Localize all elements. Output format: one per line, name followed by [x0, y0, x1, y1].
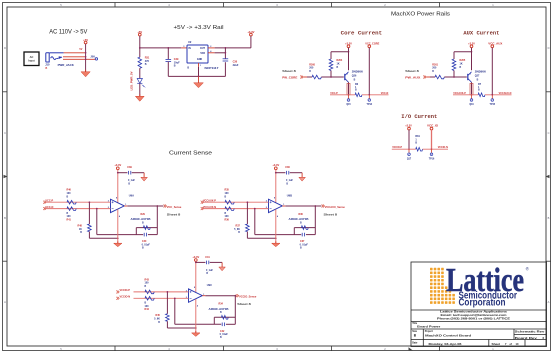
testpoint TP16: [431, 149, 433, 153]
svg-text:A: A: [4, 300, 6, 304]
wire output VCCIO_Sense: [202, 295, 205, 297]
resistor R34: [222, 316, 229, 320]
AC input box: [24, 52, 39, 66]
pin stub IN pin 3: [181, 47, 187, 49]
wire TAB to OUT net: [215, 52, 226, 54]
input net VCCIO-N: [116, 297, 119, 300]
shunt resistor R7: [478, 93, 485, 97]
wire VCC_IO drop: [431, 130, 433, 149]
svg-text:A: A: [548, 300, 550, 304]
input net VCCAUX-N: [201, 207, 204, 210]
wire jack line1 +5V: [64, 52, 86, 54]
svg-text:C41: C41: [205, 256, 210, 259]
svg-text:VCCIO-N: VCCIO-N: [438, 146, 448, 149]
svg-text:VCC_IO: VCC_IO: [427, 124, 438, 127]
svg-text:IN: IN: [188, 47, 191, 50]
svg-text:Schematic Rev: Schematic Rev: [515, 330, 545, 333]
svg-text:1K: 1K: [337, 63, 340, 66]
svg-text:GND: GND: [197, 58, 203, 61]
svg-text:0_01uF: 0_01uF: [300, 243, 309, 246]
wire bypass branch C41: [196, 261, 206, 263]
wire top rail to +3.3V: [331, 51, 349, 53]
svg-text:VCCAUX_Sense: VCCAUX_Sense: [325, 205, 346, 209]
wire feedback from pin2: [174, 298, 176, 324]
svg-text:R29: R29: [141, 213, 146, 216]
svg-text:Monday, 03-Apr-06: Monday, 03-Apr-06: [429, 342, 462, 346]
connector J10 PWR_JACK: [46, 53, 64, 62]
wire +3.3V into U9A: [117, 170, 119, 203]
testpoint TP15: [491, 95, 493, 99]
svg-text:U9C: U9C: [207, 283, 212, 287]
op-amp U9A: [111, 199, 125, 212]
ground at bypass C39: [143, 173, 145, 178]
svg-text:100: 100: [67, 192, 72, 195]
ground at U9C: [195, 331, 197, 333]
svg-text:VCCAUX-N: VCCAUX-N: [499, 92, 512, 95]
capacitor C39: [127, 171, 129, 175]
svg-text:VCC_AUX: VCC_AUX: [488, 42, 502, 46]
wire feedback loop up: [213, 317, 215, 324]
svg-text:Sheet 8: Sheet 8: [324, 212, 338, 216]
svg-text:Q17: Q17: [407, 158, 412, 160]
pin stub GND pin 1: [198, 63, 200, 67]
svg-text:VCCIO-P: VCCIO-P: [392, 146, 402, 149]
shunt resistor R6: [355, 93, 362, 97]
svg-text:VCC-P: VCC-P: [45, 200, 53, 203]
ground at bypass C36: [301, 173, 303, 178]
svg-text:Q26: Q26: [352, 74, 357, 77]
ground at U9B: [275, 241, 277, 243]
input net VCC-P: [43, 201, 46, 204]
svg-text:200: 200: [309, 67, 314, 70]
svg-text:VCC-N: VCC-N: [45, 206, 53, 209]
svg-text:22uF: 22uF: [233, 64, 239, 67]
svg-text:D: D: [4, 46, 6, 50]
resistor R36: [225, 207, 234, 211]
wire jack line3: [63, 58, 95, 60]
svg-text:VCC-N: VCC-N: [381, 92, 389, 95]
svg-text:MachXO Control Board: MachXO Control Board: [425, 334, 471, 338]
wire divider tap: [88, 202, 90, 224]
wire base net Q27: [427, 76, 431, 78]
wire bypass branch C36: [276, 172, 286, 174]
svg-text:VCC-P: VCC-P: [330, 92, 338, 95]
wire op-amp pin4 down: [117, 209, 119, 243]
wire ground rail U9A: [89, 237, 117, 239]
capacitor C40: [143, 233, 145, 237]
resistor R48: [88, 224, 92, 232]
wire +3.3V to emitter: [471, 48, 473, 71]
svg-text:B: B: [548, 216, 550, 220]
svg-text:VCCIO_Sense: VCCIO_Sense: [239, 295, 257, 299]
svg-text:C39: C39: [127, 166, 132, 169]
svg-text:1K: 1K: [460, 63, 463, 66]
resistor R260: [312, 75, 321, 79]
wire bottom rail of regulator: [168, 75, 225, 77]
resistor R46: [67, 200, 76, 204]
wire sense net VCC-P: [330, 94, 355, 96]
wire sense net VCCAUX-P: [453, 94, 478, 96]
svg-text:R34: R34: [219, 303, 224, 306]
wire +5V drop to ground at jack: [85, 44, 87, 72]
ground at bypass C41: [221, 262, 223, 267]
resistor R43: [145, 290, 154, 294]
svg-text:1K: 1K: [79, 228, 82, 231]
svg-text:C36: C36: [285, 166, 290, 169]
svg-text:R41: R41: [67, 219, 72, 222]
transistor Q26 2N3906: [344, 74, 346, 80]
svg-text:VCCIO-P: VCCIO-P: [120, 289, 131, 292]
pin stub OUT pin 2: [208, 47, 215, 49]
svg-text:B: B: [46, 67, 48, 70]
resistor R35: [225, 200, 234, 204]
svg-text:R44: R44: [145, 308, 150, 311]
title block frame: [411, 262, 547, 347]
svg-text:A009C-A071B: A009C-A071B: [209, 308, 229, 311]
wire +3.3V into U9C: [195, 261, 197, 292]
capacitor C41: [205, 261, 207, 265]
svg-text:A009C-A071B: A009C-A071B: [289, 218, 309, 221]
svg-text:PWR_JACK: PWR_JACK: [58, 63, 74, 67]
svg-text:Phone:(503) 268-8001 or (800: Phone:(503) 268-8001 or (800) LATTICE: [437, 317, 510, 321]
resistor R261: [435, 75, 444, 79]
wire output VCC_Sense: [124, 205, 127, 207]
svg-text:0_1uF: 0_1uF: [206, 269, 213, 272]
wire VCC_CORE riser: [368, 48, 370, 95]
svg-text:VCCAUX-N: VCCAUX-N: [203, 206, 216, 209]
svg-text:100: 100: [225, 192, 230, 195]
wire ground rail U9C: [167, 327, 195, 329]
wire bypass branch C39: [118, 172, 128, 174]
svg-text:U9B: U9B: [287, 194, 292, 198]
wire OUT net to +3.3V: [215, 47, 251, 49]
voltage regulator U2 NCP1117: [187, 45, 208, 63]
svg-text:2N3906: 2N3906: [352, 70, 364, 73]
svg-text:of: of: [510, 342, 513, 346]
wire base net Q26: [304, 76, 308, 78]
svg-text:LED_PWR_5V: LED_PWR_5V: [131, 71, 134, 90]
svg-text:VCCAUX-P: VCCAUX-P: [203, 200, 216, 203]
ground at U9A: [117, 241, 119, 243]
input net VCC-N: [43, 207, 46, 210]
wire top rail to +3.3V: [454, 51, 472, 53]
svg-text:MachXO Power Rails: MachXO Power Rails: [391, 12, 450, 18]
resistor R45: [166, 314, 170, 322]
capacitor C37: [301, 233, 303, 237]
wire LED to ground: [139, 83, 141, 96]
op-amp U9B: [269, 199, 283, 212]
capacitor C30: [224, 59, 226, 76]
svg-text:TP14: TP14: [367, 103, 373, 106]
svg-text:Sheet 8: Sheet 8: [237, 302, 251, 306]
testpoint Q15: [348, 95, 350, 99]
svg-text:100: 100: [145, 282, 150, 285]
svg-text:Current Sense: Current Sense: [169, 151, 212, 157]
svg-text:NCP1117: NCP1117: [205, 66, 220, 70]
wire collector to sense net: [348, 82, 350, 95]
svg-text:Sheet 8: Sheet 8: [405, 69, 419, 73]
wire feedback loop up: [293, 228, 295, 235]
svg-text:PW_AUX: PW_AUX: [405, 77, 420, 80]
resistor R31: [139, 48, 141, 57]
svg-text:Q16: Q16: [469, 104, 474, 106]
svg-text:C: C: [4, 131, 6, 135]
wire jack line2: [63, 56, 86, 58]
svg-text:0_1uF: 0_1uF: [128, 179, 135, 182]
Lattice logo dots: [430, 268, 455, 304]
svg-text:200: 200: [432, 67, 437, 70]
testpoint TP14: [368, 95, 370, 99]
svg-text:2N3906: 2N3906: [475, 70, 487, 73]
junction dots jack: [85, 52, 87, 54]
capacitor C29: [167, 48, 169, 60]
input net VCCIO-P: [116, 290, 119, 293]
testpoint Q16: [471, 95, 473, 99]
input net VCCAUX-P: [201, 201, 204, 204]
svg-text:OUT: OUT: [200, 47, 206, 50]
svg-text:TAB: TAB: [200, 52, 205, 55]
svg-text:B: B: [4, 216, 6, 220]
svg-text:B: B: [145, 63, 147, 66]
testpoint Q17: [408, 149, 410, 153]
pin stub TAB pin 4: [208, 52, 215, 54]
wire +5V to IN rail: [139, 36, 141, 48]
resistor R30: [302, 226, 309, 230]
capacitor C36: [285, 171, 287, 175]
svg-text:Input: Input: [28, 59, 34, 63]
svg-text:VCC_Sense: VCC_Sense: [167, 205, 182, 209]
wire I/O sense net: [392, 148, 416, 150]
ground at power jack: [85, 70, 87, 72]
svg-text:VCCAUX-P: VCCAUX-P: [453, 92, 466, 95]
svg-text:J10: J10: [45, 63, 50, 67]
wire output VCCAUX_Sense: [282, 205, 285, 207]
svg-text:VCCIO-N: VCCIO-N: [120, 296, 131, 299]
wire VCC_AUX riser: [491, 48, 493, 95]
ground at regulator: [198, 76, 200, 82]
svg-text:Board Power: Board Power: [417, 325, 441, 329]
svg-text:Core Current: Core Current: [341, 31, 382, 37]
svg-text:U2: U2: [188, 40, 192, 44]
resistor R44: [145, 297, 154, 301]
wire feedback from pin2: [96, 209, 98, 235]
svg-text:0_1uF: 0_1uF: [286, 179, 293, 182]
svg-text:0_01uF: 0_01uF: [142, 243, 151, 246]
svg-text:J0H: J0H: [90, 56, 95, 59]
capacitor C42: [221, 323, 223, 327]
op-amp U9C: [189, 289, 203, 302]
svg-text:R30: R30: [299, 213, 304, 216]
resistor R41: [67, 207, 76, 211]
svg-text:TP15: TP15: [490, 104, 496, 106]
svg-text:Q15: Q15: [346, 104, 351, 106]
wire op-amp pin4 down: [275, 209, 277, 243]
svg-text:5V: 5V: [79, 48, 82, 51]
svg-text:U9A: U9A: [129, 194, 134, 198]
resistor R29: [144, 226, 151, 230]
wire divider tap: [166, 292, 168, 314]
svg-text:PW_CORE: PW_CORE: [282, 77, 297, 80]
svg-text:B: B: [187, 67, 189, 70]
svg-text:VCC_CORE: VCC_CORE: [365, 42, 379, 46]
svg-text:0_01uF: 0_01uF: [220, 333, 229, 336]
svg-text:5_6K: 5_6K: [234, 228, 240, 231]
resistor R37: [246, 224, 250, 232]
wire feedback loop up: [135, 228, 137, 235]
svg-text:Q27: Q27: [475, 74, 480, 77]
svg-text:C: C: [548, 131, 550, 135]
svg-text:Sheet 8: Sheet 8: [282, 69, 296, 73]
svg-text:R36: R36: [225, 219, 230, 222]
svg-text:Board Rev: Board Rev: [515, 337, 538, 340]
connector J0H pin: [95, 58, 97, 60]
svg-text:Sheet 8: Sheet 8: [167, 212, 181, 216]
svg-text:Corporation: Corporation: [459, 298, 506, 309]
resistor R265: [453, 52, 455, 59]
wire ground rail U9B: [247, 237, 275, 239]
wire feedback from pin2: [254, 209, 256, 235]
svg-text:AC: AC: [30, 55, 34, 59]
wire GND pin to bottom rail: [198, 67, 200, 77]
shunt resistor R81: [416, 147, 423, 151]
wire +3.3V drop I/O: [408, 130, 410, 149]
svg-text:AUX Current: AUX Current: [463, 31, 499, 37]
transistor Q27 2N3906: [467, 74, 469, 80]
svg-text:Sheet: Sheet: [492, 342, 501, 346]
svg-text:5_6K: 5_6K: [154, 318, 160, 321]
svg-text:D: D: [548, 46, 550, 50]
resistor R264: [330, 52, 332, 59]
svg-text:Date: Date: [412, 342, 418, 345]
LED LED_PWR_5V: [139, 68, 141, 78]
svg-text:B: B: [174, 65, 176, 68]
ground below LED: [139, 94, 141, 96]
svg-text:TP16: TP16: [429, 158, 435, 160]
wire divider tap: [246, 202, 248, 224]
wire +3.3V into U9B: [275, 170, 277, 203]
svg-text:I/O Current: I/O Current: [401, 114, 437, 120]
wire +3.3V to emitter: [348, 48, 350, 71]
wire op-amp pin4 down: [195, 299, 197, 333]
svg-text:+5V -> +3.3V Rail: +5V -> +3.3V Rail: [174, 25, 224, 31]
svg-text:AC 110V -> 5V: AC 110V -> 5V: [49, 29, 88, 36]
svg-text:A009C-A071B: A009C-A071B: [131, 218, 151, 221]
wire collector to sense net: [471, 82, 473, 95]
